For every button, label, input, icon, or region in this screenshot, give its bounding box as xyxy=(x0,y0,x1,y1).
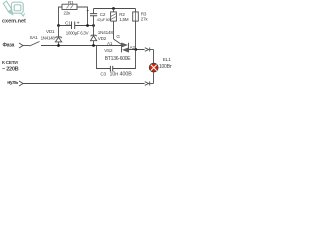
switch SA1 xyxy=(30,42,40,47)
svg-text:1000µF 6.3V: 1000µF 6.3V xyxy=(66,31,89,36)
wire top rail xyxy=(94,8,136,10)
svg-text:нуль: нуль xyxy=(7,80,18,86)
resistor R3 xyxy=(133,9,139,50)
lamp EL1 xyxy=(149,63,158,72)
capacitor C3 xyxy=(110,66,112,72)
watermark logo pencil xyxy=(3,1,13,15)
node dot C2 bottom xyxy=(92,24,95,27)
svg-text:VD2: VD2 xyxy=(98,36,107,41)
svg-text:VS2: VS2 xyxy=(104,48,113,53)
svg-text:27к: 27к xyxy=(141,17,149,22)
connector X lamp top xyxy=(145,48,154,52)
svg-text:C1: C1 xyxy=(65,20,71,25)
svg-text:SA1: SA1 xyxy=(30,35,39,40)
svg-text:1,5М: 1,5М xyxy=(119,17,128,22)
node dot B left xyxy=(57,24,60,27)
wire lamp bottom xyxy=(153,72,155,83)
triac VS2 xyxy=(122,43,129,53)
svg-text:cxem.net: cxem.net xyxy=(2,18,26,24)
svg-text:100Вт: 100Вт xyxy=(159,64,173,70)
capacitor C2 xyxy=(90,9,97,26)
diode VD2 xyxy=(91,26,97,46)
node dot A2 xyxy=(134,48,137,51)
node dot VD1-phase xyxy=(57,44,60,47)
svg-text:VD1: VD1 xyxy=(46,29,55,34)
svg-text:10н 400В: 10н 400В xyxy=(110,72,133,78)
svg-text:1N4148: 1N4148 xyxy=(41,35,56,40)
wire phase rail to triac A1 xyxy=(41,45,122,47)
connector X neutral xyxy=(19,81,23,86)
svg-text:R1: R1 xyxy=(68,0,74,5)
connector X phase xyxy=(19,43,23,48)
wire phase input to switch xyxy=(23,45,30,47)
node dot C (R1 right) xyxy=(86,24,89,27)
svg-text:C3: C3 xyxy=(100,72,106,77)
resistor R1 xyxy=(59,4,88,25)
connector X lamp bottom xyxy=(145,82,154,86)
svg-text:К СЕТИ: К СЕТИ xyxy=(2,60,18,66)
svg-text:EL1: EL1 xyxy=(163,57,171,63)
wire triac A2 out xyxy=(129,49,145,51)
svg-text:Фаза: Фаза xyxy=(3,43,15,49)
svg-text:G: G xyxy=(116,34,120,39)
wire lamp feed xyxy=(153,50,155,64)
wire neutral rail xyxy=(23,83,145,85)
svg-text:+: + xyxy=(77,20,80,26)
wire gate diagonal xyxy=(114,39,122,45)
svg-text:A1: A1 xyxy=(107,41,113,46)
svg-text:22к: 22к xyxy=(64,10,72,15)
watermark logo frame xyxy=(11,2,24,16)
resistor R2 xyxy=(111,9,117,40)
node dot VD2-phase xyxy=(92,44,95,47)
svg-text:BT136-600E: BT136-600E xyxy=(105,56,131,62)
diode VD1 xyxy=(55,26,61,46)
svg-text:~ 220В: ~ 220В xyxy=(2,66,19,72)
svg-text:1N4148: 1N4148 xyxy=(98,30,114,35)
svg-text:+: + xyxy=(86,9,89,15)
capacitor C1 xyxy=(72,22,75,30)
wire node B rail (C1 row) xyxy=(59,25,94,27)
capacitor C3 branch wire xyxy=(97,46,136,69)
node dot R2 top xyxy=(112,7,115,10)
